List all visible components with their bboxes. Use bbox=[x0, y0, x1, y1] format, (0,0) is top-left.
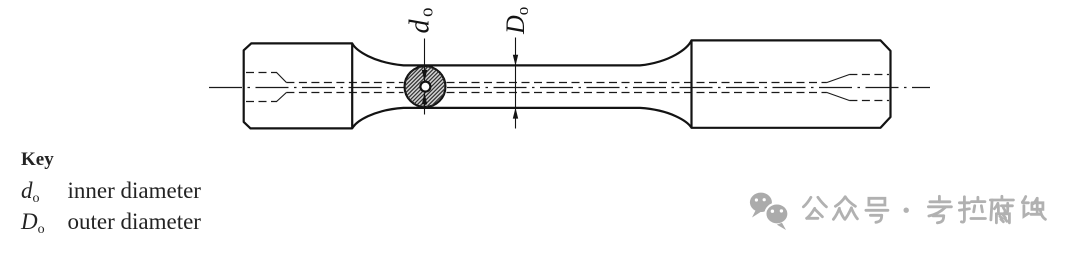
watermark WeChat icon: right bubble bbox=[765, 203, 788, 230]
svg-text:Do: Do bbox=[501, 7, 532, 35]
hidden line: right bore taper upper bbox=[827, 75, 850, 83]
hidden line: left bore taper upper bbox=[277, 73, 287, 83]
glyph 腐 bbox=[990, 196, 1013, 223]
hidden line: left bore taper lower bbox=[277, 93, 287, 102]
centerline (dash-dot axis), left of section circle bbox=[209, 87, 404, 89]
glyph 公 bbox=[803, 197, 826, 218]
glyph 拉 bbox=[959, 197, 985, 222]
glyph 蚀 bbox=[1022, 197, 1045, 220]
watermark WeChat icon: left bubble bbox=[750, 193, 772, 218]
centerline (dash-dot axis), right of section circle bbox=[447, 87, 930, 89]
key row d_o bbox=[21, 178, 40, 207]
d_o lower arrowhead bbox=[422, 93, 427, 105]
specimen outline (grips, fillets, gauge) bbox=[244, 40, 891, 128]
d_o upper arrowhead bbox=[422, 70, 427, 82]
glyph 号 bbox=[866, 198, 888, 222]
watermark separator dot bbox=[904, 208, 909, 213]
D_o lower arrowhead bbox=[513, 108, 518, 119]
key text block bbox=[0, 0, 400, 1]
hidden line: inner bore upper edge, right of section bbox=[447, 82, 827, 84]
key heading bbox=[21, 149, 54, 171]
left grip end-face edge bbox=[351, 43, 353, 128]
d_o dimension leader line (lower) bbox=[424, 93, 426, 115]
glyph 众 bbox=[833, 197, 857, 220]
section inner hole bbox=[420, 82, 430, 92]
section circle (cross-section at gauge) bbox=[405, 66, 446, 107]
hidden line: left grip bore upper edge bbox=[246, 72, 277, 74]
hidden line: right bore taper lower bbox=[827, 93, 850, 101]
d_o dimension leader line (upper) bbox=[424, 39, 426, 82]
hatching of section bbox=[384, 31, 448, 154]
glyph 考 bbox=[928, 196, 951, 223]
svg-text:do: do bbox=[405, 5, 438, 34]
hidden line: inner bore lower edge, right of section bbox=[447, 92, 827, 94]
D_o upper arrowhead bbox=[513, 55, 518, 66]
D_o dimension line bbox=[515, 38, 517, 129]
watermark CJK glyphs drawn as strokes bbox=[803, 196, 1045, 223]
hidden line: right grip bore upper edge bbox=[849, 74, 889, 76]
hidden line: left grip bore lower edge bbox=[246, 101, 277, 103]
right grip end-face edge bbox=[690, 40, 692, 127]
hidden line: inner bore lower edge, left of section bbox=[286, 92, 403, 94]
key row D_o bbox=[21, 209, 45, 238]
hidden line: inner bore upper edge, left of section bbox=[286, 82, 403, 84]
hidden line: right grip bore lower edge bbox=[849, 100, 889, 102]
